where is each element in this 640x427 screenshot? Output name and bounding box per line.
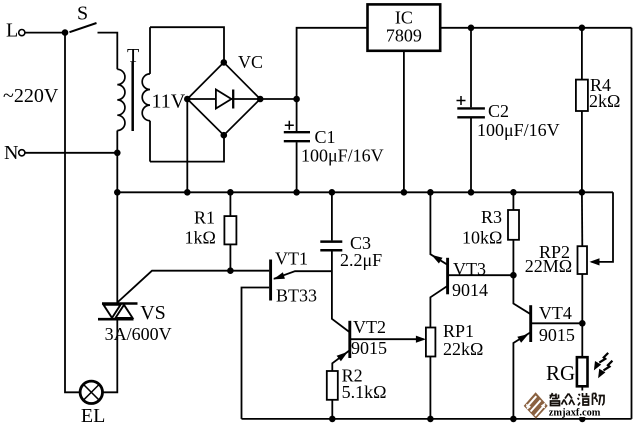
node R3 VT3 base [510,272,517,279]
transistor Q1 VT1 emitter arrowhead [273,272,285,279]
node C1 positive [293,96,300,103]
wire VT2 emitter to R2 [332,351,349,371]
wire bridge negative drop [186,99,188,192]
bridge diode cathode bar [232,90,234,109]
wire C2 top lead [470,28,472,108]
node C2 top rail [468,25,475,32]
svg-text:VT4: VT4 [539,303,572,323]
wire IC output rail [440,27,631,29]
lamp EL cross [83,384,99,400]
node R4 top rail [579,25,586,32]
node bridge left [184,96,191,103]
svg-text:100μF/16V: 100μF/16V [301,146,384,166]
wire RP2 bottom to VT4 node [581,274,583,323]
svg-text:100μF/16V: 100μF/16V [477,120,560,140]
node bus R1 [227,189,234,196]
svg-text:S: S [77,3,88,25]
resistor R1 [224,216,236,244]
wire C1 top lead [296,99,298,131]
triac VS top bar [102,302,138,305]
capacitor C2 polarity plus [457,96,466,105]
node bus R4 RP2 [579,189,586,196]
wire C3 top lead [331,192,333,240]
photoresistor RG light arrow 2 [598,361,612,379]
terminal N [19,150,25,156]
transistor Q1 VT1 bar [269,260,272,301]
svg-text:VT2: VT2 [353,317,386,337]
node bridge right [257,96,264,103]
node bridge top [221,59,228,66]
wire IC ground pin [403,51,405,193]
svg-text:9015: 9015 [539,325,575,345]
wire RP1 bottom lead [429,357,431,419]
resistor R2 [327,371,338,400]
svg-text:1kΩ: 1kΩ [185,227,216,247]
wire R4 top lead [581,28,583,80]
op-amp U1 IC 7809 box [368,4,441,50]
wire VT4 emitter to bottom rail [513,333,530,419]
svg-text:VS: VS [140,302,166,324]
wire R3 bottom lead [512,240,514,275]
transformer T secondary winding [142,74,150,121]
capacitor C3 plates [320,242,342,251]
potentiometer RP2 wiper arrow [590,258,600,265]
svg-text:C2: C2 [488,101,509,121]
photoresistor RG body [577,357,588,386]
svg-text:L: L [6,19,18,41]
capacitor C2 plates [457,108,485,117]
wire C1 bottom lead [296,142,298,192]
wire VT3 emitter to ground bus [430,192,446,264]
wire R4 bottom lead [581,111,583,192]
triac VS right triangle [116,305,133,318]
svg-text:3A/600V: 3A/600V [105,324,172,344]
switch S blade [70,23,97,32]
transistor Q2 VT2 emitter arrowhead [337,352,348,362]
svg-text:7809: 7809 [386,26,422,46]
wire VT2 base to RP1 wiper [351,338,424,340]
bridge diode lead line [187,98,260,100]
svg-text:R3: R3 [481,207,502,227]
potentiometer RP1 wiper arrow [416,336,426,343]
node bus C2 [468,189,475,196]
wire C3 bottom to VT2 collector [332,251,349,332]
transistor Q4 VT4 bar [529,305,532,342]
wire right edge [631,28,633,419]
capacitor C1 polarity plus [285,121,294,130]
wire VT1 base1 to bottom rail [242,288,270,419]
svg-text:VT1: VT1 [275,248,308,268]
svg-text:~220V: ~220V [3,85,59,107]
svg-text:N: N [4,142,18,164]
wire N lead [25,152,117,154]
bridge diode triangle [216,90,232,109]
resistor R4 [576,80,588,111]
logo halo [547,391,610,418]
svg-text:VC: VC [238,52,263,72]
svg-text:5.1kΩ: 5.1kΩ [342,382,387,402]
svg-text:2.2μF: 2.2μF [340,250,382,270]
wire C1 node riser to IC input [297,28,368,99]
triac VS bottom bar [98,318,134,321]
wire secondary left upper [149,27,151,74]
wire VT3 collector to RP1 [430,286,446,327]
node N junction [114,150,121,157]
svg-text:EL: EL [81,405,105,427]
wire switch to transformer primary [98,33,118,70]
wire R1 top lead [229,192,231,216]
wire R3 node to VT4 collector [513,275,530,314]
node bus IC gnd [401,189,408,196]
svg-text:zmjaxf.com: zmjaxf.com [549,408,601,419]
node rail R2 [329,416,336,423]
node L junction [62,29,69,36]
svg-text:BT33: BT33 [276,286,317,306]
lamp EL circle [80,381,102,403]
svg-text:22kΩ: 22kΩ [443,339,483,359]
wire triac bottom to lamp [103,320,118,393]
transistor Q3 VT3 bar [446,258,449,295]
svg-text:RP1: RP1 [443,321,474,341]
wire bridge output to C1 node [260,98,296,100]
wire R1 bottom lead [229,244,231,270]
svg-text:2kΩ: 2kΩ [589,91,620,111]
wire L lead [25,32,65,34]
photoresistor RG light arrow 1 [594,353,608,371]
logo mark [524,392,548,418]
terminal L [19,29,25,35]
svg-text:VT3: VT3 [453,259,486,279]
transformer T core [131,62,134,131]
svg-text:T: T [127,45,139,67]
node bridge bottom [221,132,228,139]
svg-text:10kΩ: 10kΩ [462,228,502,248]
resistor R3 [508,210,519,240]
wire VT3 base to R3 node [449,274,514,276]
wire L vertical to lamp [65,33,80,393]
wire ground bus [117,191,613,193]
wire primary bottom through N and bus to triac [116,131,118,304]
transistor Q3 VT3 emitter arrowhead [431,255,442,264]
wire bottom rail [242,418,632,420]
wire VT4 base to RP2 node [532,322,583,324]
transistor Q2 VT2 bar [348,321,351,358]
wire VT1 emitter to C3 node [274,271,332,279]
svg-text:IC: IC [395,8,413,28]
node rail RP1 [427,416,434,423]
potentiometer RP1 body [426,328,436,357]
wire secondary top to bridge top [150,27,224,62]
wire R1 node to VT1 base2 [230,270,269,272]
potentiometer RP2 body [578,246,588,274]
logo text 智淼消防 [550,393,605,406]
wire triac gate to R1 node [117,271,230,303]
svg-text:11V: 11V [152,91,186,113]
capacitor C1 plates [284,132,310,141]
svg-text:R1: R1 [194,208,215,228]
triac VS left triangle [104,305,121,318]
svg-text:22MΩ: 22MΩ [525,256,572,276]
wire secondary left lower [149,121,151,162]
node rail VT4 [510,416,517,423]
transformer T primary winding [117,69,125,130]
wire C2 bottom lead [470,118,472,192]
node bus R3 [510,189,517,196]
wire RP2 top lead [581,192,583,246]
transistor Q4 VT4 emitter arrowhead [517,334,528,343]
svg-text:9015: 9015 [351,338,387,358]
node bus triac [114,189,121,196]
node VT4 base RP2 RG [579,320,586,327]
svg-text:C1: C1 [315,127,336,147]
svg-text:9014: 9014 [452,280,488,300]
wire R2 bottom lead [331,400,333,419]
svg-text:RG: RG [546,361,575,385]
bridge rectifier VC diamond [187,62,260,135]
node bus VT3 [427,189,434,196]
node bus C3 [329,189,336,196]
wire rect bottom to bridge bottom [150,135,224,161]
node bus C1 [293,189,300,196]
node bus bridge [184,189,191,196]
node rail RG [579,416,586,423]
wire RG top lead [581,323,583,357]
wire RP2 wiper loop [592,192,614,262]
node R1 gate [227,267,234,274]
wire R3 top lead [512,192,514,210]
wire RG bottom lead [581,386,583,419]
